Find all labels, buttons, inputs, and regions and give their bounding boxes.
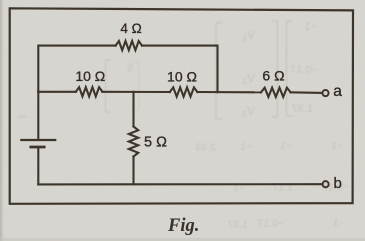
svg-text:5: 5	[127, 63, 133, 75]
svg-text:10 Ω: 10 Ω	[75, 68, 105, 84]
svg-text:1.37: 1.37	[292, 103, 313, 115]
svg-text:b: b	[334, 175, 342, 192]
svg-text:1.37: 1.37	[227, 219, 248, 231]
svg-text:−1: −1	[333, 217, 345, 229]
svg-text:−1: −1	[304, 21, 317, 33]
svg-text:Fig.: Fig.	[167, 216, 199, 236]
svg-text:2.33: 2.33	[195, 142, 216, 154]
svg-text:−1: −1	[240, 141, 252, 153]
svg-text:4 Ω: 4 Ω	[120, 21, 141, 36]
svg-text:5 Ω: 5 Ω	[144, 135, 167, 151]
svg-text:−0.17: −0.17	[290, 64, 318, 76]
svg-text:−0.17: −0.17	[257, 218, 284, 230]
svg-text:a: a	[333, 83, 342, 100]
svg-text:10 Ω: 10 Ω	[167, 69, 197, 85]
svg-text:−1: −1	[331, 140, 343, 152]
svg-text:−1: −1	[280, 141, 292, 153]
svg-text:6 Ω: 6 Ω	[262, 68, 284, 84]
